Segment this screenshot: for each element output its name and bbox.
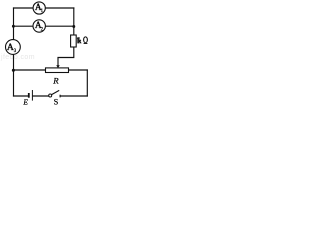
svg-text:R: R bbox=[52, 75, 59, 85]
battery E short plate bbox=[28, 93, 30, 98]
wire second branch left to A2 bbox=[14, 25, 34, 27]
svg-text:jfeoo.com: jfeoo.com bbox=[0, 54, 35, 61]
wire far right vertical bbox=[86, 70, 88, 96]
wire right vertical top bbox=[73, 8, 75, 35]
ammeter A3 bbox=[5, 40, 20, 55]
rheostat R body bbox=[46, 68, 69, 73]
node junction right branch bbox=[72, 25, 75, 28]
node junction left rheostat bbox=[12, 69, 15, 72]
ammeter A1 bbox=[33, 2, 45, 14]
label 1kOhm bbox=[76, 37, 79, 43]
wire top-left horizontal to A1 bbox=[14, 7, 34, 9]
wire left vertical main bbox=[13, 8, 15, 96]
wire rheostat right bbox=[69, 69, 88, 71]
node junction left branch bbox=[12, 25, 15, 28]
wire A1 right to top-right corner bbox=[45, 7, 73, 9]
wire rheostat left bbox=[14, 69, 46, 71]
resistor 1kOhm body bbox=[71, 35, 77, 47]
wire right vertical resistor to wiper bend bbox=[58, 47, 74, 66]
wire battery to switch bbox=[33, 95, 49, 97]
switch S contact tick bbox=[59, 95, 61, 98]
wire A2 right to right node bbox=[45, 25, 73, 27]
svg-text:E: E bbox=[22, 98, 28, 107]
battery E long plate bbox=[31, 90, 33, 101]
switch S pivot bbox=[49, 94, 52, 97]
ammeter A2 bbox=[33, 20, 45, 33]
wire bottom left to battery bbox=[14, 95, 29, 97]
switch S blade bbox=[52, 90, 60, 94]
wire switch to bottom right bbox=[60, 95, 87, 97]
rheostat wiper arrowhead bbox=[56, 65, 60, 68]
svg-text:S: S bbox=[54, 98, 59, 107]
